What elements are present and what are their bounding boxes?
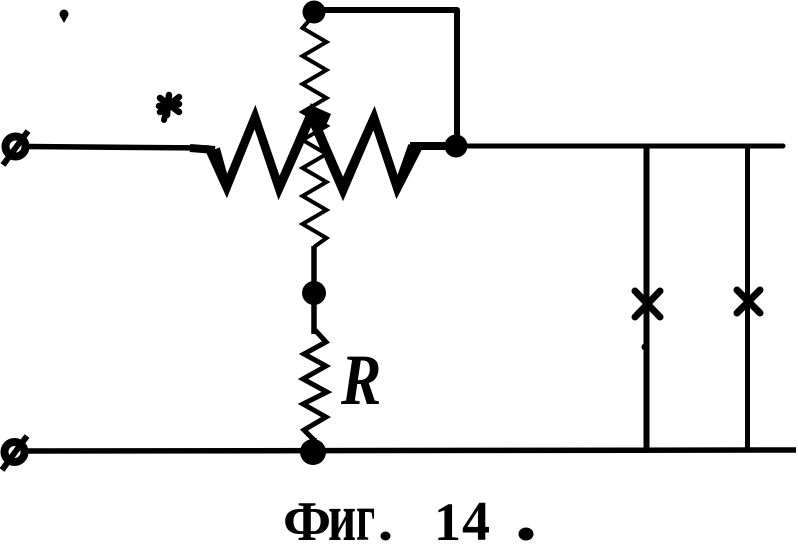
wire: R to bottom rail <box>311 438 317 452</box>
wire: top loop from node to right <box>313 10 457 146</box>
wire: bottom rail <box>26 450 796 451</box>
resistor R <box>303 330 327 440</box>
node (top dot) <box>303 1 326 24</box>
wire: resistor right lead <box>410 142 445 150</box>
node (junction dot above R) <box>302 281 326 305</box>
node (junction dot on top rail) <box>445 135 468 158</box>
svg-text:R: R <box>340 341 381 420</box>
terminal (bottom-left) <box>2 436 27 470</box>
asterisk marker <box>159 95 179 120</box>
svg-text:4: 4 <box>462 491 490 544</box>
wire: right vertical branch 2 <box>745 148 750 450</box>
wire: vertical between thin resistor and node <box>311 246 317 334</box>
wire: resistor left lead <box>190 148 215 150</box>
contact X mark on branch 1 <box>635 291 660 317</box>
wire: top rail right segment <box>441 144 783 149</box>
node (bottom dot) <box>300 439 326 465</box>
ink blob at wiper contact on middle peak <box>309 106 331 130</box>
resistor (thin vertical, upper) <box>303 16 327 247</box>
wire: top rail left segment <box>27 147 209 149</box>
stray ink dot top-left <box>60 10 69 24</box>
terminal (top-left) <box>3 131 28 165</box>
contact X mark on branch 2 <box>737 290 760 313</box>
wire: right vertical branch 1 <box>644 148 650 450</box>
svg-text:и: и <box>328 479 356 544</box>
svg-text:Ф: Ф <box>283 491 331 544</box>
resistor (bold rheostat winding) <box>206 103 421 201</box>
svg-text:1: 1 <box>434 492 461 544</box>
svg-text:г: г <box>356 481 375 544</box>
ink blob on branch 1 <box>642 344 649 351</box>
